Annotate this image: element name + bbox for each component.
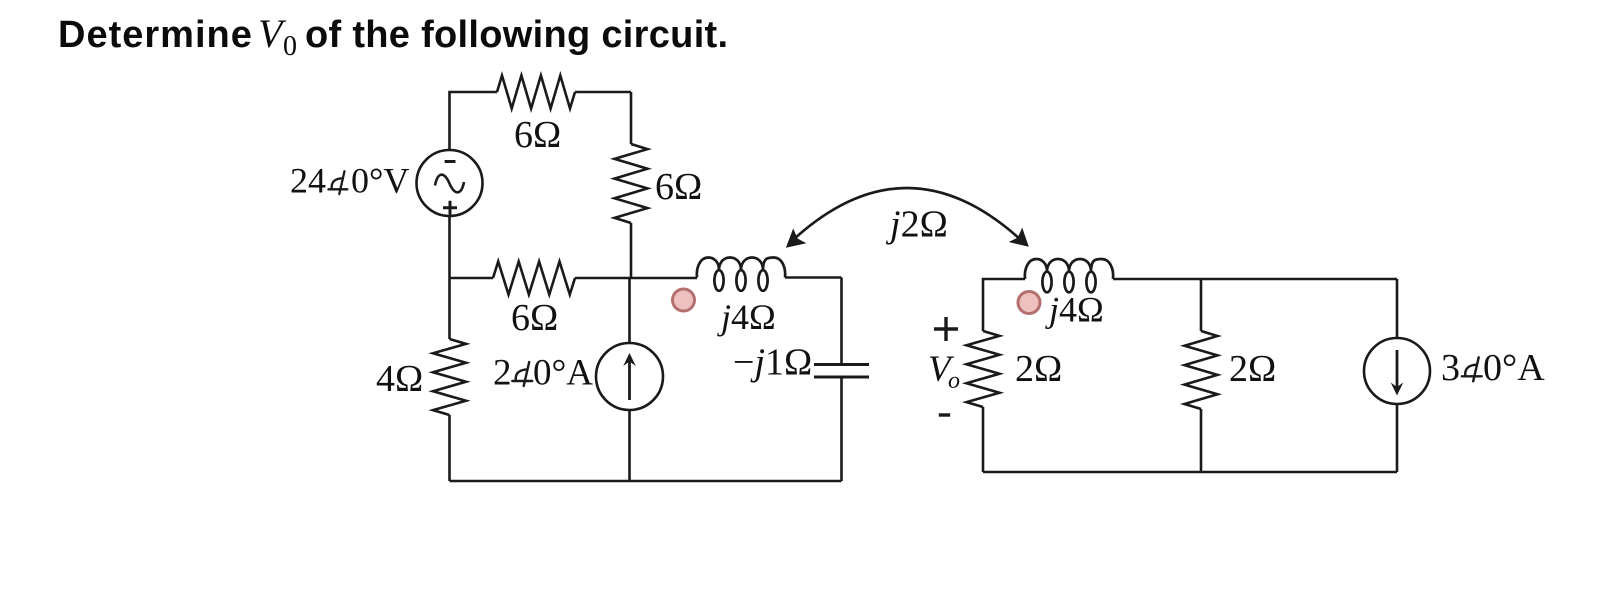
svg-text:2Ω: 2Ω [1229,348,1276,390]
label plus Vo [934,317,958,341]
wire: right rail lower right circuit [1396,404,1399,472]
voltage source V1 circle [417,150,483,216]
current source I1 circle [596,343,663,410]
svg-text:of the following circuit.: of the following circuit. [305,14,728,56]
svg-text:j4Ω: j4Ω [1045,290,1104,330]
coupling arrowhead right [1009,228,1029,247]
dot marker left (polarity dot) [673,289,695,311]
wire: top rail right segment [575,91,631,94]
current source down arrow [1396,350,1399,388]
wire: middle rail to inductor [575,277,697,280]
svg-text:0°V: 0°V [351,161,409,201]
inductor j4ohm right [1025,259,1113,279]
resistor 6ohm vertical [615,144,648,223]
voltage source sine [435,175,464,193]
mutual coupling arc j2ohm [793,188,1022,240]
svg-text:Determine: Determine [58,14,253,56]
resistor 4ohm vertical [433,339,466,415]
wire: middle branch right circuit [1200,279,1203,331]
wire: top rail right of inductor [1113,278,1397,281]
wire: center branch below middle rail [628,278,631,343]
svg-text:0°A: 0°A [1483,347,1545,389]
svg-text:j4Ω: j4Ω [717,297,776,337]
resistor 2ohm left (Vo) [967,331,1000,407]
wire: left rail source to middle [448,216,451,339]
svg-text:6Ω: 6Ω [655,166,702,208]
resistor 6ohm middle [493,262,575,295]
svg-text:o: o [948,368,960,394]
svg-text:4Ω: 4Ω [376,358,423,400]
inductor j4ohm left [697,257,785,277]
wire: right rail upper [840,278,843,365]
wire: left rail lower [448,415,451,481]
wire: right branch lower [630,223,633,278]
wire: right rail upper right circuit [1396,279,1399,338]
svg-text:j2Ω: j2Ω [885,204,948,246]
svg-text:0: 0 [283,31,297,62]
wire: right rail lower [840,377,843,481]
svg-text:6Ω: 6Ω [511,297,558,339]
svg-text:0°A: 0°A [533,353,593,394]
wire: left circuit top rail [450,92,498,150]
svg-text:24: 24 [290,161,326,201]
wire: left circuit bottom rail [450,480,842,483]
wire: right branch down to resistor [630,92,633,144]
svg-text:6Ω: 6Ω [514,114,561,156]
dot marker right (polarity dot) [1018,292,1040,314]
wire: left rail lower right circuit [982,407,985,472]
voltage source plus sign [443,201,457,215]
svg-text:2: 2 [493,353,512,394]
svg-text:3: 3 [1441,347,1460,389]
wire: right circuit top-left corner [983,279,1025,331]
current source up arrow [628,360,631,400]
label minus Vo [939,413,950,416]
capacitor -j1ohm plates [814,365,869,378]
wire: middle rail left segment [450,277,494,280]
wire: center branch below source [628,410,631,481]
svg-text:2Ω: 2Ω [1015,348,1062,390]
coupling arrowhead left [786,228,806,247]
current source I2 circle [1364,338,1430,404]
wire: right circuit bottom rail [983,471,1397,474]
voltage source minus sign [445,160,456,163]
resistor 2ohm middle [1185,331,1218,409]
resistor R top 6ohm [497,76,575,109]
wire: middle rail after inductor [785,276,842,279]
svg-text:−j1Ω: −j1Ω [733,342,812,384]
